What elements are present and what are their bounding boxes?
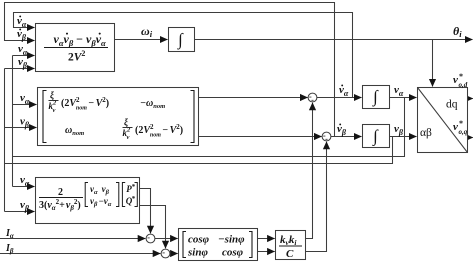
wire v_beta into B1 bbox=[5, 68, 35, 70]
ROT bracket right bbox=[249, 232, 252, 258]
block B1 frequency estimator bbox=[36, 24, 115, 72]
wire v_beta feedback from integrator output down-left to left bus bbox=[5, 137, 393, 164]
svg-text:o,d: o,d bbox=[459, 81, 468, 89]
wire theta_i from INT0 to right edge bbox=[195, 39, 473, 41]
label v_od output bbox=[453, 72, 468, 89]
wire gain output row1 up into sum1 bbox=[306, 103, 313, 239]
wire v_alpha into B1 bbox=[13, 55, 35, 57]
svg-text:vβ: vβ bbox=[337, 123, 347, 137]
svg-text:2: 2 bbox=[58, 187, 63, 198]
wire dq output v_od bbox=[468, 98, 473, 100]
B2 matrix bracket right bbox=[191, 91, 195, 143]
B3 matrix bracket right bbox=[116, 183, 119, 207]
sum2 minus signs bbox=[323, 136, 327, 139]
svg-text:vα: vα bbox=[339, 84, 349, 98]
B2 row1 xi fraction bbox=[49, 90, 59, 114]
sum1 minus signs bbox=[309, 97, 313, 100]
svg-text:vβ: vβ bbox=[20, 199, 30, 213]
block B2 oscillator state matrix bbox=[38, 88, 199, 146]
wire theta_i tap down into dq block bbox=[432, 40, 434, 87]
svg-text:Iβ: Iβ bbox=[5, 243, 14, 255]
GAIN fraction bar bbox=[279, 245, 302, 247]
svg-text:vβ: vβ bbox=[20, 116, 30, 130]
B3 Q star bbox=[126, 195, 136, 206]
wire dq output v_oq bbox=[468, 137, 473, 139]
wire sum1 output vdot_alpha to INT1 bbox=[317, 97, 362, 99]
wire v_alpha feedback from integrator output down-left to left bus bbox=[13, 98, 405, 157]
summing junction sumB bbox=[161, 249, 170, 258]
svg-text:vα: vα bbox=[18, 43, 28, 57]
wire I_alpha input to sumA bbox=[0, 238, 145, 240]
B3 PQ bracket right bbox=[135, 183, 138, 207]
svg-text:vβ: vβ bbox=[18, 56, 28, 70]
B2 matrix bracket left bbox=[43, 91, 47, 143]
label vdot_beta B1 input bbox=[17, 28, 27, 42]
wire gain output row2 up into sum2 bbox=[306, 142, 327, 252]
sumB minus sign bbox=[163, 252, 165, 254]
wire omega_i from B1 to integrator INT0 bbox=[115, 39, 168, 41]
wire B2 row2 output to sum2 bbox=[199, 136, 322, 138]
wire B2 row1 output to sum1 bbox=[199, 97, 308, 99]
label v_oq output bbox=[453, 119, 468, 136]
wire sum2 output vdot_beta to INT2 bbox=[331, 136, 362, 138]
wire v_alpha bus vertical bbox=[12, 56, 14, 187]
block INT1 integrator v_alpha bbox=[363, 86, 390, 109]
wire v_beta bus vertical bbox=[4, 69, 6, 212]
wire rotation block to gain row1 bbox=[258, 238, 275, 240]
wire v_alpha into B2 bbox=[13, 104, 37, 106]
B3 P star bbox=[126, 183, 136, 194]
svg-text:θi: θi bbox=[453, 24, 462, 39]
wire v_beta INT2 to dq block bbox=[390, 136, 417, 138]
svg-text:ξ: ξ bbox=[124, 117, 128, 127]
summing junction sum2 bbox=[322, 132, 331, 141]
XFM diagonal bbox=[418, 88, 468, 153]
label vdot_beta sum2 output bbox=[337, 123, 347, 137]
wire v_beta into B3 bbox=[5, 211, 35, 213]
svg-text:C: C bbox=[286, 248, 294, 260]
svg-text:*: * bbox=[132, 183, 136, 191]
wire vdot_alpha feedback: tap on sum1 output up and across to B1 input bbox=[14, 13, 353, 98]
wire v_alpha INT1 to dq block bbox=[390, 97, 417, 99]
svg-text:Iα: Iα bbox=[5, 228, 14, 240]
svg-text:−sinφ: −sinφ bbox=[218, 234, 245, 246]
svg-text:cosφ: cosφ bbox=[188, 234, 210, 246]
svg-text:vβ: vβ bbox=[394, 123, 404, 137]
svg-text:vα: vα bbox=[20, 174, 30, 188]
wire B3 row2 output down to sumB bbox=[140, 206, 166, 249]
svg-text:sinφ: sinφ bbox=[187, 247, 208, 259]
wire vdot_beta feedback top: tap on sum2 output up and across to B1 input bbox=[5, 3, 335, 137]
svg-text:*: * bbox=[459, 72, 463, 81]
B1 fraction bar bbox=[44, 47, 108, 49]
svg-text:vα: vα bbox=[20, 92, 30, 106]
ROT bracket left bbox=[183, 232, 186, 258]
wire rotation block to gain row2 bbox=[258, 251, 275, 253]
block INT2 integrator v_beta bbox=[363, 125, 390, 148]
wire sumB output to rotation block bbox=[170, 253, 178, 255]
svg-text:αβ: αβ bbox=[420, 127, 432, 139]
block INT0 integrator bbox=[169, 28, 195, 52]
block ROT rotation matrix bbox=[179, 229, 258, 261]
svg-text:vα: vα bbox=[394, 84, 404, 98]
B2 row2 xi fraction bbox=[123, 117, 133, 141]
wire I_beta input to sumB bbox=[0, 253, 160, 255]
label vdot_alpha B1 input bbox=[17, 15, 27, 29]
svg-text:v: v bbox=[453, 121, 458, 133]
wire sumA output to rotation block bbox=[155, 238, 178, 240]
block B3 reference current calculation bbox=[36, 178, 140, 224]
label vdot_alpha sum1 output bbox=[339, 84, 349, 98]
B3 PQ bracket left bbox=[122, 183, 125, 207]
B3 fraction bar bbox=[39, 197, 83, 199]
svg-text:vα: vα bbox=[17, 15, 27, 29]
wire v_alpha into B3 bbox=[13, 186, 35, 188]
svg-text:*: * bbox=[132, 195, 136, 203]
block XFM alpha-beta to dq transform bbox=[418, 88, 468, 153]
summing junction sumA bbox=[146, 234, 155, 243]
wire v_beta into B2 bbox=[5, 127, 37, 129]
svg-text:ξ: ξ bbox=[50, 90, 54, 100]
B3 matrix bracket left bbox=[85, 183, 88, 207]
svg-text:cosφ: cosφ bbox=[222, 247, 244, 259]
svg-text:o,q: o,q bbox=[459, 128, 468, 136]
svg-text:*: * bbox=[459, 119, 463, 128]
block GAIN kv ki over C bbox=[276, 231, 306, 260]
svg-text:vβ: vβ bbox=[17, 28, 27, 42]
svg-text:v: v bbox=[453, 74, 458, 86]
svg-text:dq: dq bbox=[446, 99, 458, 111]
B1 formula numerator bbox=[54, 32, 107, 48]
wire B3 row1 output down to sumA bbox=[140, 189, 151, 234]
summing junction sum1 bbox=[308, 93, 317, 102]
svg-text:ωi: ωi bbox=[141, 24, 153, 39]
sumA minus sign bbox=[148, 237, 150, 239]
